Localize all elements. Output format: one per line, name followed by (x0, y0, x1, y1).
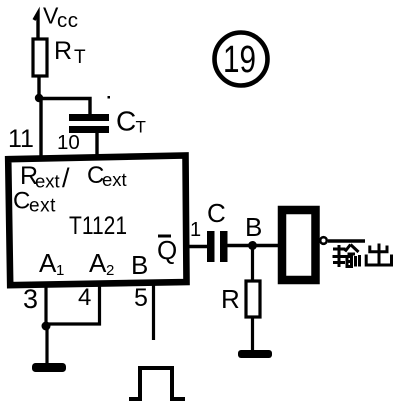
IC pin label Q-bar (157, 235, 177, 265)
svg-text:T1121: T1121 (69, 212, 127, 240)
svg-text:R: R (221, 284, 240, 314)
svg-text:C: C (207, 198, 226, 228)
出 (378, 244, 381, 266)
capacitor C (207, 198, 228, 262)
wire pin 1 output (184, 245, 208, 248)
svg-text:A: A (39, 248, 57, 278)
svg-text:B: B (131, 250, 148, 280)
输 right lower box (347, 257, 352, 267)
svg-text:10: 10 (57, 131, 80, 154)
ground (left, below pins 3-4) (32, 363, 66, 372)
scan speck near CT wire (108, 96, 111, 99)
trigger pulse waveform (129, 368, 185, 399)
输 left radical (338, 245, 341, 267)
wire gate output (328, 239, 365, 243)
svg-text:ext: ext (29, 196, 56, 217)
node junction below RT (35, 94, 43, 102)
wire pin 5 (152, 285, 155, 340)
svg-text:C: C (116, 106, 136, 137)
capacitor CT (69, 106, 146, 137)
svg-text:cc: cc (57, 9, 79, 32)
wire resistor bottom to junction (37, 76, 40, 98)
IC pin label A2 (89, 248, 114, 279)
svg-text:ext: ext (102, 169, 127, 190)
figure label 19 (215, 33, 268, 86)
输 right part roof (345, 245, 351, 252)
IC label Rext/Cext line 1 (20, 162, 127, 193)
resistor R (221, 281, 260, 317)
wire pin 4 (46, 285, 100, 324)
svg-text:19: 19 (223, 39, 256, 81)
svg-text:ext: ext (35, 171, 60, 192)
wire pin 10 vertical (95, 133, 98, 157)
svg-text:Q: Q (157, 235, 177, 265)
svg-text:11: 11 (8, 125, 34, 153)
node B (245, 212, 262, 250)
svg-text:T: T (74, 47, 86, 68)
node junction pins 3-4 (42, 322, 51, 331)
output label 输出 (333, 244, 392, 268)
resistor RT (33, 37, 86, 76)
inverter gate (buffer block) (282, 210, 327, 280)
IC U1 T1121 body (8, 156, 186, 286)
svg-text:4: 4 (78, 284, 91, 311)
wire node B down to resistor R (251, 246, 254, 282)
power Vcc (34, 3, 79, 41)
svg-text:3: 3 (23, 284, 38, 314)
wire junction to ground (45, 326, 48, 364)
IC pin label A1 (39, 248, 64, 279)
svg-text:C: C (13, 188, 30, 215)
wire pin 3 (44, 285, 47, 326)
svg-text:2: 2 (106, 262, 114, 279)
svg-text:/: / (62, 163, 70, 193)
svg-text:1: 1 (190, 219, 201, 241)
wire cap C to gate (227, 244, 280, 247)
IC label Cext line 2 (13, 188, 56, 217)
svg-text:A: A (89, 248, 107, 278)
svg-text:R: R (54, 37, 72, 65)
wire resistor R to ground (251, 317, 254, 353)
svg-text:T: T (136, 118, 146, 137)
wire junction to CT branch (39, 99, 90, 115)
svg-text:1: 1 (56, 262, 64, 279)
svg-text:5: 5 (134, 284, 148, 312)
ground (right, below R) (238, 350, 272, 358)
wire pin 11 vertical (39, 98, 42, 159)
svg-text:B: B (245, 212, 262, 242)
